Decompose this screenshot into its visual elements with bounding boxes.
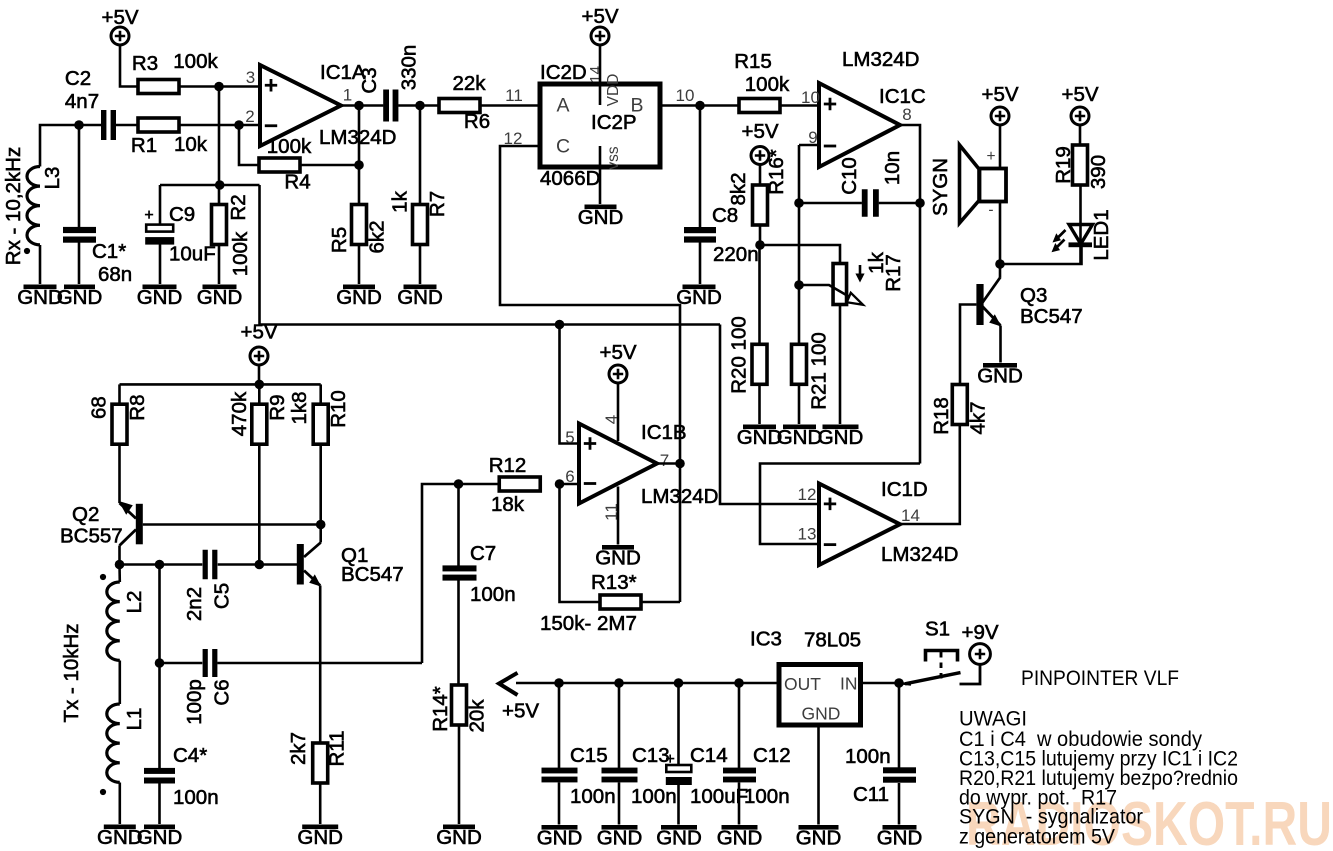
wire node to R17 top	[760, 245, 840, 264]
ground C8	[676, 285, 722, 310]
svg-text:C13: C13	[632, 744, 670, 767]
wire R19 to LED1	[1079, 185, 1082, 264]
svg-text:B: B	[630, 95, 643, 117]
svg-text:+5V: +5V	[741, 120, 778, 143]
arrow +5V rail	[499, 673, 518, 695]
power +9V	[961, 621, 998, 664]
capacitor C7	[443, 542, 516, 606]
svg-text:4k7: 4k7	[967, 401, 990, 434]
resistor R8	[88, 394, 150, 444]
svg-text:100n: 100n	[173, 786, 219, 809]
wire pin6 to IC1B	[560, 483, 580, 486]
svg-text:100k: 100k	[229, 231, 252, 276]
svg-text:L3: L3	[41, 167, 64, 190]
svg-text:GND: GND	[578, 206, 624, 229]
svg-text:R3: R3	[132, 52, 158, 75]
power +5V (IC2)	[581, 5, 618, 45]
wire pin9 node down to R21	[798, 145, 801, 344]
svg-text:IC1D: IC1D	[881, 478, 928, 501]
svg-text:C5: C5	[211, 583, 234, 609]
svg-text:14: 14	[901, 506, 920, 525]
svg-text:SYGN: SYGN	[929, 158, 952, 216]
wire C6 left	[160, 662, 203, 665]
wire L2 to L1	[119, 661, 122, 705]
svg-text:100n: 100n	[631, 785, 677, 808]
svg-text:C2: C2	[65, 67, 91, 90]
ground R5	[336, 285, 382, 310]
svg-text:vss: vss	[605, 146, 622, 170]
wire Vref down to bus	[258, 185, 261, 325]
wire rail to R9	[258, 384, 261, 404]
svg-text:+: +	[144, 207, 153, 224]
wire C3 to R6	[398, 104, 439, 107]
wire L3 to ground	[39, 245, 42, 284]
svg-text:8: 8	[902, 105, 911, 124]
node C12	[734, 678, 744, 688]
svg-text:R15: R15	[734, 50, 772, 73]
coil L2	[107, 565, 146, 661]
wire R18 to IC1D output	[900, 425, 960, 525]
wire IC2 pin12 to IC1B output	[500, 146, 680, 464]
node C11/switch	[894, 678, 904, 688]
svg-text:A: A	[556, 95, 569, 117]
wire output node down to R4/R5	[358, 106, 361, 166]
svg-text:GND: GND	[977, 365, 1023, 388]
svg-text:12: 12	[798, 485, 817, 504]
node R2 top	[215, 180, 225, 190]
node Q2 collector / L2	[115, 560, 125, 570]
op-amp IC1C	[819, 48, 926, 167]
svg-text:GND: GND	[676, 286, 722, 309]
svg-text:GND: GND	[197, 286, 243, 309]
svg-text:R10: R10	[327, 390, 350, 428]
node C5 / R9	[254, 560, 264, 570]
notes UWAGI	[959, 708, 1238, 849]
node wiper/R21	[794, 280, 804, 290]
svg-text:R17: R17	[882, 254, 905, 292]
svg-text:GND: GND	[802, 704, 841, 724]
capacitor C4	[144, 744, 219, 809]
svg-text:+5V: +5V	[599, 341, 636, 364]
svg-text:GND: GND	[436, 826, 482, 849]
wire IC2 pin10 to R15	[660, 104, 739, 107]
wire 220n node down to R20	[758, 245, 761, 344]
resistor R10	[288, 390, 350, 444]
svg-text:-: -	[988, 202, 993, 219]
svg-text:68n: 68n	[98, 263, 132, 286]
wire C2 to R1	[114, 124, 138, 127]
svg-text:R1: R1	[131, 134, 157, 157]
wire IC3 IN to switch	[861, 682, 900, 685]
transistor Q1 BC547	[297, 525, 404, 587]
wire R15 to IC1C pin10	[780, 104, 819, 107]
svg-text:LM324D: LM324D	[881, 543, 959, 566]
wire bus down to IC1B pin5	[560, 325, 580, 444]
capacitor C10	[838, 151, 904, 217]
wire +5V to R16	[759, 165, 762, 186]
svg-text:IC2D: IC2D	[540, 61, 587, 84]
regulator IC3 78L05	[750, 628, 861, 726]
ground R11	[297, 825, 343, 850]
svg-text:C4*: C4*	[173, 744, 207, 767]
wire IC1C pin9 left	[799, 144, 819, 147]
svg-text:+5V: +5V	[581, 5, 618, 28]
svg-text:+5V: +5V	[240, 321, 277, 344]
capacitor C8	[684, 204, 759, 266]
node R4/R5	[354, 160, 364, 170]
wire R16 to 220n node	[759, 225, 762, 245]
svg-text:R21 100: R21 100	[808, 332, 831, 410]
wire C10 right	[879, 202, 920, 205]
svg-text:IC3: IC3	[750, 628, 782, 651]
svg-text:BC547: BC547	[341, 563, 404, 586]
svg-text:R13*: R13*	[591, 571, 637, 594]
svg-text:GND: GND	[777, 426, 823, 449]
ground IC1B	[595, 545, 641, 570]
ground C9	[137, 285, 183, 310]
switch S1	[899, 618, 980, 685]
svg-text:Tx - 10kHz: Tx - 10kHz	[60, 623, 83, 722]
svg-text:78L05: 78L05	[804, 629, 861, 652]
node R12 left	[454, 479, 464, 489]
node C10 left	[794, 198, 804, 208]
resistor R7	[389, 190, 450, 244]
svg-text:2k7: 2k7	[287, 732, 310, 765]
resistor R16	[727, 149, 788, 225]
wire R12 left node	[459, 483, 500, 486]
svg-text:L2: L2	[123, 591, 146, 614]
capacitor C6	[183, 649, 234, 725]
wire node to C6 line	[422, 484, 459, 663]
resistor R20	[728, 316, 767, 394]
wire R13 right	[641, 601, 680, 604]
potentiometer R17	[799, 251, 905, 304]
capacitor C2	[65, 67, 116, 140]
svg-text:7: 7	[660, 451, 669, 470]
capacitor C1	[63, 227, 132, 286]
node C15	[554, 678, 564, 688]
svg-text:+5V: +5V	[981, 83, 1018, 106]
power +5V (speaker)	[981, 83, 1018, 125]
capacitor C5	[183, 550, 234, 621]
svg-text:10k: 10k	[174, 133, 208, 156]
svg-text:GND: GND	[397, 286, 443, 309]
ground C13	[597, 825, 643, 850]
svg-text:GND: GND	[297, 826, 343, 849]
node C6/C4	[155, 658, 165, 668]
wire +5V to IC2 VDD	[599, 45, 602, 105]
svg-text:R19: R19	[1052, 146, 1075, 184]
resistor R1	[131, 118, 208, 157]
wire IC3 GND to ground	[817, 725, 820, 825]
wire tank node line	[120, 563, 203, 566]
svg-text:4n7: 4n7	[65, 90, 99, 113]
svg-text:20k: 20k	[466, 699, 489, 733]
svg-text:OUT: OUT	[784, 674, 821, 694]
svg-text:C12: C12	[753, 744, 791, 767]
ground Q3	[977, 363, 1023, 388]
wire +5V output rail	[516, 682, 779, 685]
wire LED1 to node	[1000, 247, 1082, 264]
polarity dot L1	[100, 789, 106, 795]
wire C5 to Q1 base	[218, 563, 297, 566]
node C10 right	[915, 198, 925, 208]
wire C7 to R14	[457, 580, 460, 685]
wire feedback down	[679, 464, 682, 603]
wire IC1A output	[341, 104, 383, 107]
svg-text:+: +	[666, 751, 675, 768]
wire +5V to R3	[120, 45, 138, 87]
svg-text:R11: R11	[326, 730, 349, 766]
node L2 tap / C6	[155, 560, 165, 570]
coil L3	[27, 167, 64, 245]
svg-text:C1*: C1*	[92, 240, 126, 263]
wire C2-node down to C1	[78, 125, 81, 227]
transistor Q2 BC557	[60, 444, 143, 564]
svg-text:10n: 10n	[881, 151, 904, 185]
svg-text:GND: GND	[737, 426, 783, 449]
svg-text:390: 390	[1087, 155, 1110, 189]
svg-text:100n: 100n	[744, 785, 790, 808]
wire pin2 to R4	[239, 125, 259, 165]
wire C12 to ground	[738, 783, 741, 825]
wire R5 to ground	[358, 245, 361, 285]
wire R4 to output node	[300, 164, 359, 167]
svg-text:C11: C11	[853, 783, 889, 806]
capacitor C12	[723, 683, 791, 808]
ground R17	[818, 425, 864, 450]
ground C1	[57, 285, 103, 310]
ground C11	[877, 825, 923, 850]
capacitor C13	[602, 683, 677, 808]
wire Vref bus	[260, 323, 721, 326]
svg-text:100p: 100p	[183, 679, 206, 725]
svg-text:R12: R12	[489, 454, 527, 477]
svg-text:3: 3	[246, 68, 255, 87]
svg-text:+: +	[986, 148, 995, 165]
svg-text:18k: 18k	[491, 493, 525, 516]
svg-text:2n2: 2n2	[183, 587, 206, 621]
wire L3 top	[40, 125, 102, 167]
resistor R12	[489, 454, 541, 516]
svg-text:GND: GND	[877, 827, 923, 850]
op-amp IC1A	[260, 61, 397, 149]
svg-text:LED1: LED1	[1090, 209, 1113, 260]
svg-text:R18: R18	[930, 397, 953, 435]
svg-text:R2: R2	[227, 194, 250, 220]
wire node down to C8	[699, 106, 702, 228]
ground C14	[656, 825, 702, 850]
svg-text:R14*: R14*	[429, 686, 452, 732]
wire +5V to rail	[258, 365, 261, 384]
coil L1	[107, 704, 146, 782]
node oscillator rail	[254, 380, 264, 390]
svg-text:GND: GND	[57, 286, 103, 309]
resistor R5	[328, 205, 389, 254]
svg-text:Q3: Q3	[1020, 284, 1047, 307]
analog switch IC2 4066D	[540, 61, 660, 190]
svg-text:BC547: BC547	[1020, 305, 1083, 328]
wire IC1D pin12 to Vref bus	[720, 325, 819, 505]
wire R7 to ground	[419, 245, 422, 285]
power +5V (R19)	[1061, 83, 1098, 125]
wire R2 to ground	[218, 245, 221, 285]
node R16/R20/R17	[755, 240, 765, 250]
svg-text:100n: 100n	[570, 785, 616, 808]
wire Q1 emitter to R11	[319, 586, 322, 744]
wire Vref node horizontal	[160, 184, 260, 187]
wire oscillator supply rail	[120, 383, 321, 386]
ground R14	[436, 825, 482, 850]
svg-text:100n: 100n	[470, 583, 516, 606]
svg-text:S1: S1	[925, 618, 950, 641]
svg-text:14: 14	[588, 66, 605, 84]
svg-text:10uF: 10uF	[169, 243, 216, 266]
svg-text:1: 1	[343, 86, 352, 105]
node C14	[674, 678, 684, 688]
node R3/R2 junction	[214, 82, 224, 92]
svg-text:VDD: VDD	[605, 74, 622, 107]
svg-text:11: 11	[505, 86, 523, 105]
wire C6 line right	[217, 662, 422, 665]
wire R6 to IC2 pin11	[480, 104, 540, 107]
transistor Q3 BC547	[976, 264, 1082, 363]
wire R20 to ground	[758, 384, 761, 424]
svg-text:IN: IN	[840, 674, 858, 694]
svg-text:22k: 22k	[452, 72, 486, 95]
svg-text:LM324D: LM324D	[842, 48, 920, 71]
wire +5V to R19	[1079, 125, 1082, 145]
wire R11 to ground	[319, 783, 322, 824]
svg-text:100n: 100n	[845, 745, 891, 768]
svg-text:68: 68	[88, 396, 111, 419]
capacitor C3	[358, 45, 421, 122]
capacitor C9 (electrolytic)	[144, 185, 215, 266]
svg-text:z generatorem 5V: z generatorem 5V	[959, 826, 1115, 849]
power +5V (R16)	[741, 120, 778, 165]
polarity dot L2	[100, 574, 106, 580]
wire C8 to ground	[699, 243, 702, 285]
svg-text:4066D: 4066D	[540, 167, 600, 190]
svg-text:R16*: R16*	[765, 149, 788, 195]
ground IC3	[796, 825, 842, 850]
svg-text:GND: GND	[537, 827, 583, 850]
svg-text:C15: C15	[570, 744, 608, 767]
wire node down to C7	[457, 484, 460, 566]
wire rail to R8	[118, 384, 121, 404]
node bus to IC1B	[555, 320, 565, 330]
svg-text:GND: GND	[336, 286, 382, 309]
wire C10 left	[799, 202, 862, 205]
svg-text:GND: GND	[656, 827, 702, 850]
svg-text:C6: C6	[211, 679, 234, 705]
ground R20	[737, 425, 783, 450]
svg-text:GND: GND	[717, 827, 763, 850]
wire L1 to ground	[119, 783, 122, 825]
wire C9 to ground	[159, 244, 162, 284]
svg-text:C: C	[556, 136, 570, 158]
node Q3 collector/LED	[995, 259, 1005, 269]
svg-text:R4: R4	[284, 171, 310, 194]
wire +5V to IC1B pin4	[617, 383, 620, 441]
power +5V (R3 supply)	[101, 6, 138, 45]
capacitor C11	[845, 683, 916, 806]
svg-text:C10: C10	[838, 157, 861, 195]
ground C15	[537, 825, 583, 850]
wire C13 to ground	[618, 783, 621, 825]
wire C15 to ground	[558, 783, 561, 825]
svg-text:1k8: 1k8	[288, 391, 311, 424]
svg-text:C8: C8	[712, 204, 738, 227]
resistor R2	[212, 194, 253, 276]
svg-text:+9V: +9V	[961, 621, 998, 644]
wire IC1D pin13 from IC1C output	[760, 464, 920, 545]
svg-text:2: 2	[245, 107, 254, 126]
wire R21 to ground	[798, 384, 801, 424]
node pin10/C8	[695, 101, 705, 111]
node pin2	[234, 120, 244, 130]
svg-text:GND: GND	[796, 827, 842, 850]
svg-text:C9: C9	[169, 203, 195, 226]
wire R3 to IC1A pin3	[179, 85, 260, 88]
node IC1B output	[675, 459, 685, 469]
wire C4 top	[158, 663, 161, 768]
op-amp IC1B	[579, 421, 719, 508]
svg-text:+5V: +5V	[1061, 83, 1098, 106]
svg-text:220n: 220n	[713, 243, 759, 266]
op-amp IC1D	[819, 478, 959, 566]
wire R10 bottom to node	[319, 444, 322, 524]
polarity dot L3	[24, 248, 30, 254]
wire C3-node down to R7	[419, 106, 422, 205]
svg-text:L1: L1	[123, 708, 146, 731]
svg-text:C3: C3	[358, 67, 381, 93]
svg-text:8k2: 8k2	[727, 172, 750, 205]
wire IC1B output	[657, 462, 680, 465]
node IC1B pin6	[555, 479, 565, 489]
wire C1 to ground	[78, 243, 81, 285]
ground R21	[777, 425, 823, 450]
svg-text:150k- 2M7: 150k- 2M7	[540, 612, 637, 635]
svg-text:C14: C14	[690, 744, 728, 767]
svg-text:+5V: +5V	[502, 700, 539, 723]
node Q1 collector	[316, 520, 326, 530]
svg-text:GND: GND	[137, 286, 183, 309]
wire C4 to ground	[158, 784, 161, 825]
wire R9 bottom down to C5 node	[258, 444, 261, 564]
power +5V (oscillator)	[240, 321, 277, 366]
svg-text:GND: GND	[137, 826, 183, 849]
node IC1A output	[354, 101, 364, 111]
ground L1	[97, 825, 143, 850]
wire speaker to Q3 collector node	[999, 201, 1002, 265]
svg-text:GND: GND	[595, 547, 641, 570]
svg-text:R5: R5	[328, 227, 351, 253]
wire node to R5	[358, 165, 361, 205]
node C13	[614, 678, 624, 688]
wire R14 to ground	[458, 725, 461, 824]
wire R1 to IC1A pin2	[179, 124, 260, 127]
resistor R9	[228, 391, 289, 444]
wire Q3 base to R18	[960, 305, 976, 385]
svg-text:Q2: Q2	[72, 503, 99, 526]
resistor R11	[287, 730, 349, 783]
resistor R4	[259, 135, 312, 194]
svg-text:+5V: +5V	[101, 6, 138, 29]
resistor R6	[439, 72, 490, 133]
wire R13 left	[560, 484, 601, 602]
wire rail to R10	[319, 384, 322, 404]
